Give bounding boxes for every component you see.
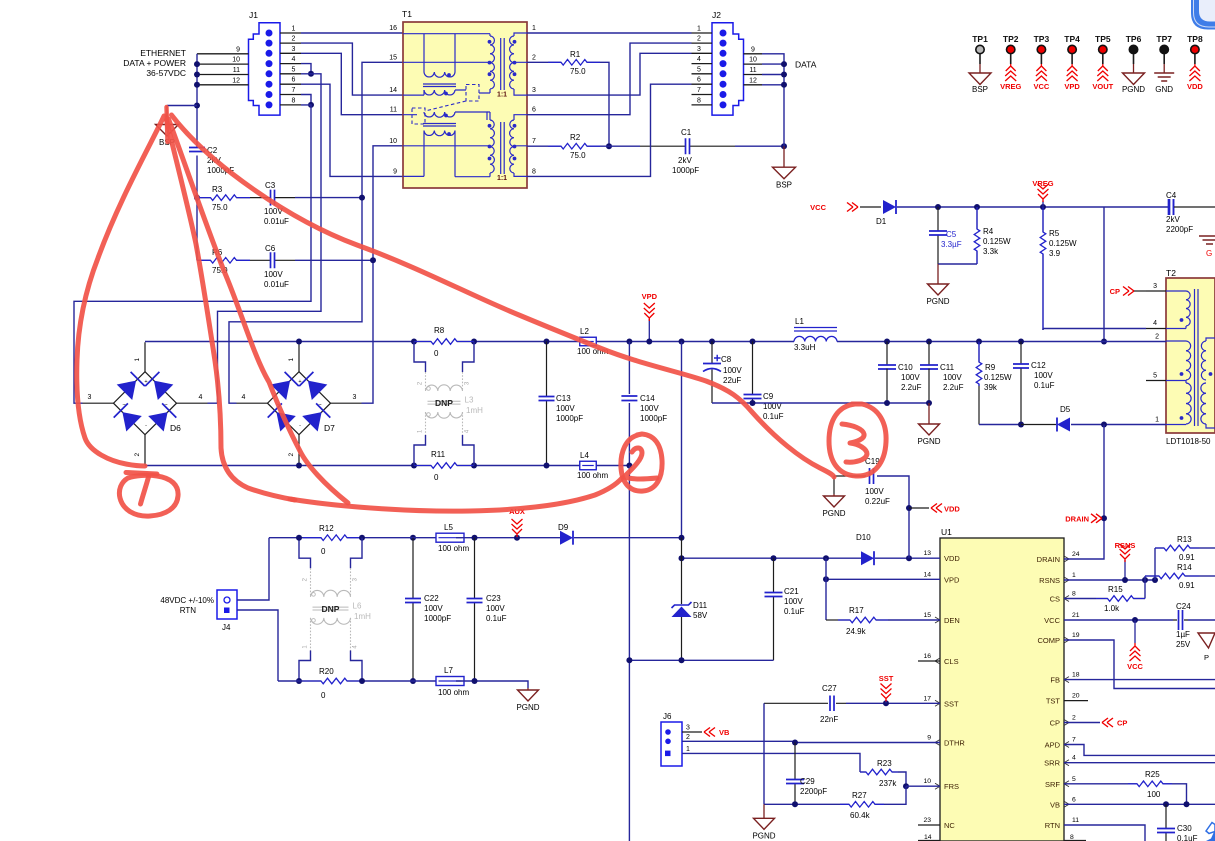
svg-text:R27: R27 [852, 791, 867, 800]
wire R12 row [269, 537, 303, 539]
svg-text:R14: R14 [1177, 563, 1192, 572]
svg-text:1: 1 [134, 358, 141, 362]
capacitor C21 [773, 558, 775, 660]
svg-text:18: 18 [1072, 672, 1080, 679]
junction J1 pins45 [308, 71, 314, 77]
wire J6.3 VB [682, 731, 702, 733]
wire J1.6 to T1.9 [301, 84, 403, 176]
svg-text:R8: R8 [434, 326, 445, 335]
wire C1 to BSP node [735, 145, 784, 147]
junction C22 top [410, 535, 416, 541]
ferrite bead L5 [436, 533, 464, 542]
svg-text:L6: L6 [353, 601, 362, 610]
svg-text:2: 2 [134, 453, 141, 457]
svg-text:R25: R25 [1145, 770, 1160, 779]
wire R3C3 to x362 [295, 197, 362, 199]
svg-text:TP7: TP7 [1156, 34, 1172, 44]
junction VDD flag [906, 505, 912, 511]
ground PGND right edge [1198, 633, 1215, 648]
svg-text:J6: J6 [663, 712, 672, 721]
svg-text:SRF: SRF [1045, 780, 1060, 789]
svg-text:10: 10 [749, 57, 757, 64]
svg-text:0.125W: 0.125W [983, 237, 1011, 246]
wire top rail [145, 341, 414, 343]
junction x826 vpd [823, 576, 829, 582]
svg-text:48VDC +/-10%: 48VDC +/-10% [160, 596, 214, 605]
svg-text:J1: J1 [249, 10, 258, 20]
svg-text:8: 8 [697, 97, 701, 104]
svg-text:8: 8 [532, 168, 536, 175]
svg-text:0.1uF: 0.1uF [763, 412, 784, 421]
svg-text:DRAIN: DRAIN [1065, 515, 1089, 524]
annotation circle 1 [119, 475, 178, 516]
junction C23 bottom [472, 678, 478, 684]
svg-text:~: ~ [318, 403, 321, 409]
wire BSP branch [167, 105, 197, 107]
svg-text:100V: 100V [486, 604, 505, 613]
svg-text:DTHR: DTHR [944, 739, 965, 748]
svg-text:L2: L2 [580, 327, 589, 336]
resistor R2 [527, 145, 548, 147]
wire T1.15 node to D7 left [229, 62, 403, 403]
svg-text:CS: CS [1050, 595, 1060, 604]
wire C4 right [1174, 206, 1215, 208]
svg-text:DATA: DATA [795, 60, 817, 70]
svg-text:1:1: 1:1 [497, 175, 507, 182]
svg-text:J4: J4 [222, 623, 231, 632]
svg-text:VDD: VDD [944, 505, 960, 514]
svg-text:R17: R17 [849, 606, 864, 615]
svg-text:R11: R11 [431, 450, 446, 459]
svg-text:19: 19 [1072, 632, 1080, 639]
svg-text:C21: C21 [784, 587, 799, 596]
svg-text:U1: U1 [941, 527, 952, 537]
svg-text:D1: D1 [876, 217, 887, 226]
wire J1.5 spare to D6 right [208, 74, 322, 403]
junction T1.10 R6 [370, 257, 376, 263]
wire T1.10 node to D7 right [362, 146, 404, 403]
svg-text:2: 2 [1155, 334, 1159, 341]
svg-text:C22: C22 [424, 594, 439, 603]
wire DRAIN pin [1064, 518, 1104, 559]
svg-text:R13: R13 [1177, 535, 1192, 544]
junction R25 VB [1184, 801, 1190, 807]
svg-text:12: 12 [232, 77, 240, 84]
svg-text:5: 5 [292, 66, 296, 73]
svg-text:C30: C30 [1177, 824, 1192, 833]
junction DATA 11 [781, 72, 787, 78]
junction x826 top [823, 555, 829, 561]
svg-text:2200pF: 2200pF [800, 787, 827, 796]
svg-text:C14: C14 [640, 394, 655, 403]
svg-text:1: 1 [292, 26, 296, 33]
svg-text:14: 14 [923, 571, 931, 578]
svg-text:R23: R23 [877, 759, 892, 768]
svg-text:L7: L7 [444, 666, 453, 675]
svg-text:9: 9 [393, 168, 397, 175]
svg-text:VPD: VPD [1064, 82, 1080, 91]
wire R20 row [278, 680, 303, 682]
connector J6 [661, 722, 682, 766]
resistor R1 [527, 61, 548, 63]
svg-text:100V: 100V [723, 366, 742, 375]
ground BSP right [783, 146, 785, 167]
svg-text:8: 8 [1072, 591, 1076, 598]
svg-text:6: 6 [697, 77, 701, 84]
wire x681 vertical upper [681, 342, 683, 538]
wire J1.8 spare to D6 left [74, 105, 311, 403]
svg-text:25V: 25V [1176, 640, 1191, 649]
svg-text:0: 0 [434, 473, 439, 482]
wire SRF pin [1064, 783, 1128, 785]
svg-text:D10: D10 [856, 533, 871, 542]
logo corner bottom right [1206, 823, 1215, 834]
junction C10 bottom [884, 400, 890, 406]
resistor R13 [1154, 548, 1156, 580]
capacitor C3 [250, 197, 295, 199]
svg-text:100V: 100V [424, 604, 443, 613]
wire bottom rail [145, 465, 414, 467]
wire D1 to C4 [897, 206, 1169, 208]
junction x681 rail [679, 339, 685, 345]
capacitor C27 [830, 696, 834, 712]
svg-text:PGND: PGND [917, 437, 940, 446]
svg-text:APD: APD [1045, 741, 1061, 750]
wire R6C6 to x373 [295, 259, 373, 261]
svg-text:T1: T1 [402, 9, 412, 19]
svg-text:4: 4 [292, 56, 296, 63]
svg-text:SRR: SRR [1044, 759, 1060, 768]
wire J1.1 to T1.16 [301, 32, 403, 34]
capacitor C23 [474, 538, 476, 681]
svg-text:0: 0 [434, 349, 439, 358]
svg-text:16: 16 [389, 25, 397, 32]
junction VDD riser [906, 555, 912, 561]
annotation tip at BSP [167, 107, 168, 142]
wire DRAIN riser [1103, 425, 1105, 519]
svg-text:3: 3 [532, 87, 536, 94]
svg-text:CP: CP [1110, 287, 1120, 296]
ground PGND under L7 [527, 688, 529, 690]
wire VCC pin [1064, 619, 1173, 621]
svg-text:8: 8 [1070, 834, 1074, 841]
wire R25 to VB rail [1172, 784, 1187, 805]
annotation stroke B2 (BSP down right) [169, 119, 349, 503]
svg-text:3: 3 [686, 725, 690, 732]
annotation bottom sweep to circle 2 [290, 478, 622, 511]
svg-text:R2: R2 [570, 133, 581, 142]
junction rail660 x681 [679, 657, 685, 663]
svg-text:-: - [145, 423, 147, 429]
svg-text:1.0k: 1.0k [1104, 604, 1120, 613]
T2 pin stubs [1146, 291, 1166, 381]
resistor R3 [197, 197, 250, 199]
svg-text:3.3µF: 3.3µF [941, 240, 962, 249]
svg-text:6: 6 [292, 77, 296, 84]
junction R12 choke [359, 535, 365, 541]
wire C27 left [764, 702, 810, 704]
svg-text:LDT1018-50: LDT1018-50 [1166, 437, 1211, 446]
svg-text:C8: C8 [721, 355, 732, 364]
U1 pin23 NC stub [918, 824, 940, 826]
svg-text:0.01uF: 0.01uF [264, 280, 289, 289]
svg-text:4: 4 [1153, 320, 1157, 327]
svg-text:VCC: VCC [810, 203, 826, 212]
svg-text:D11: D11 [693, 601, 708, 610]
svg-text:SST: SST [879, 674, 894, 683]
capacitor C30 [1165, 804, 1167, 841]
annotation digit 3 [842, 424, 867, 462]
junction x681 row13 [679, 555, 685, 561]
svg-text:21: 21 [1072, 612, 1080, 619]
svg-text:1000pF: 1000pF [640, 414, 667, 423]
svg-text:P: P [1204, 653, 1209, 662]
svg-text:D5: D5 [1060, 405, 1071, 414]
svg-text:2kV: 2kV [1166, 215, 1180, 224]
resistor R20 [303, 680, 365, 682]
svg-text:1: 1 [1155, 417, 1159, 424]
svg-text:C12: C12 [1031, 361, 1046, 370]
svg-text:0.125W: 0.125W [984, 373, 1012, 382]
svg-text:100 ohm: 100 ohm [438, 544, 469, 553]
junction C13 bottom [544, 463, 550, 469]
wire C19 row [834, 475, 866, 477]
junction C9 bottom [750, 400, 756, 406]
wire D9 to x681 [574, 537, 682, 539]
wire J1.3 to T1.11 [301, 53, 403, 114]
svg-text:R4: R4 [983, 227, 994, 236]
wire J4 pin2 [237, 610, 278, 681]
wire T1.3 to J2.3 [527, 53, 692, 95]
ground PGND under C5 [937, 264, 939, 284]
resistor R23 [860, 771, 898, 773]
svg-text:C5: C5 [946, 230, 957, 239]
svg-text:9: 9 [236, 46, 240, 53]
wire R5 to T2.4 [1042, 329, 1044, 331]
junction VPD [646, 339, 652, 345]
svg-text:16: 16 [923, 653, 931, 660]
wire J2 DATA bus [762, 54, 784, 146]
capacitor C9 [752, 342, 754, 404]
svg-text:T2: T2 [1166, 268, 1176, 278]
junction R4 top [974, 204, 980, 210]
svg-text:3.9: 3.9 [1049, 249, 1061, 258]
svg-text:VDD: VDD [944, 554, 960, 563]
svg-text:0.125W: 0.125W [1049, 239, 1077, 248]
svg-text:1000pF: 1000pF [424, 614, 451, 623]
svg-text:PGND: PGND [926, 297, 949, 306]
capacitor C14 [628, 342, 630, 395]
capacitor C8 polarized [711, 342, 713, 404]
flag VDD left [909, 507, 929, 509]
svg-text:C27: C27 [822, 684, 837, 693]
svg-text:11: 11 [1072, 817, 1079, 824]
svg-text:+: + [144, 379, 147, 385]
junction R20 choke [359, 678, 365, 684]
svg-text:75.0: 75.0 [212, 203, 228, 212]
svg-text:7: 7 [697, 87, 701, 94]
wire RTN route [1064, 825, 1145, 841]
svg-text:1: 1 [288, 358, 295, 362]
svg-text:3: 3 [697, 46, 701, 53]
svg-text:VDD: VDD [1187, 82, 1203, 91]
annotation circle 2 [621, 434, 662, 491]
svg-text:7: 7 [292, 87, 296, 94]
wire to L7 [404, 680, 445, 682]
annotation circle 1 dash [126, 473, 157, 475]
junction L6 bl [296, 678, 302, 684]
svg-text:PGND: PGND [752, 831, 775, 840]
svg-text:VCC: VCC [1127, 662, 1143, 671]
diode D10 [861, 551, 874, 565]
svg-text:G: G [1206, 249, 1212, 258]
wire T1.1 to J2.1 [527, 32, 692, 34]
wire C4 vert to rail [1103, 207, 1105, 342]
wire J6.1 route [682, 753, 860, 772]
svg-text:10: 10 [923, 778, 931, 785]
svg-text:0.1uF: 0.1uF [486, 614, 507, 623]
svg-text:1000pF: 1000pF [556, 414, 583, 423]
wire D5 to T2.1 [1071, 424, 1166, 426]
svg-text:11: 11 [390, 107, 397, 114]
svg-text:TP4: TP4 [1064, 34, 1080, 44]
svg-text:0.22uF: 0.22uF [865, 497, 890, 506]
svg-text:VCC: VCC [1033, 82, 1049, 91]
svg-text:CP: CP [1117, 719, 1127, 728]
svg-text:DNP: DNP [435, 398, 453, 408]
junction C29 bottom [792, 801, 798, 807]
wire pgnd rail 804 [764, 803, 840, 805]
svg-text:1µF: 1µF [1176, 630, 1190, 639]
wire L5 to D9 [456, 537, 561, 539]
flag VB left [704, 728, 710, 737]
junction C9 top [750, 339, 756, 345]
svg-text:C6: C6 [265, 244, 276, 253]
svg-text:4: 4 [1072, 755, 1076, 762]
bridge rectifier D7 [268, 372, 331, 435]
wire T1.6 to J2.2 [527, 43, 692, 115]
wire C5 R4 bottom [938, 263, 977, 265]
junction C29 top [792, 740, 798, 746]
svg-text:GND: GND [1155, 85, 1173, 94]
svg-text:20: 20 [1072, 693, 1080, 700]
svg-text:L5: L5 [444, 523, 453, 532]
wire J1.7 down [301, 95, 311, 105]
junction C11 bottom [926, 400, 932, 406]
svg-text:6: 6 [532, 107, 536, 114]
junction R15 vert [1142, 577, 1148, 583]
wire C12 to D5 [1021, 424, 1056, 426]
U1 bottom partial pin stub left [918, 840, 940, 841]
svg-text:BSP: BSP [776, 181, 792, 190]
svg-text:DATA + POWER: DATA + POWER [123, 58, 186, 68]
svg-text:17: 17 [923, 695, 931, 702]
junction C12 bottom [1018, 422, 1024, 428]
svg-text:VOUT: VOUT [1092, 82, 1113, 91]
junction rail660 x629 [626, 657, 632, 663]
svg-text:2: 2 [697, 36, 701, 43]
svg-text:R3: R3 [212, 185, 223, 194]
svg-text:C24: C24 [1176, 602, 1191, 611]
svg-text:J2: J2 [712, 10, 721, 20]
wire J4 pin1 [237, 538, 269, 600]
svg-text:R15: R15 [1108, 585, 1123, 594]
resistor R8 [414, 341, 474, 343]
svg-text:C29: C29 [800, 777, 815, 786]
resistor R9 [978, 342, 980, 387]
svg-text:22uF: 22uF [723, 376, 741, 385]
junction D7 bottom [296, 463, 302, 469]
junction VREG [1040, 204, 1046, 210]
svg-text:R12: R12 [319, 524, 334, 533]
resistor R4 [976, 207, 978, 264]
junction L3 tr [471, 339, 477, 345]
svg-text:0.1uF: 0.1uF [784, 607, 805, 616]
svg-text:6: 6 [1072, 796, 1076, 803]
svg-text:2: 2 [532, 54, 536, 61]
svg-text:PGND: PGND [1122, 85, 1145, 94]
svg-text:9: 9 [751, 46, 755, 53]
junction DATA 12 [781, 82, 787, 88]
svg-text:3.3uH: 3.3uH [794, 343, 816, 352]
wire VB rail [1064, 803, 1215, 805]
svg-text:15: 15 [389, 54, 397, 61]
svg-text:~: ~ [122, 403, 125, 409]
svg-text:10: 10 [389, 138, 397, 145]
svg-text:C9: C9 [763, 392, 774, 401]
junction L3 br [471, 463, 477, 469]
svg-text:VB: VB [719, 728, 730, 737]
svg-text:SST: SST [944, 699, 959, 708]
svg-text:CLS: CLS [944, 657, 959, 666]
wire J1.4 down [301, 64, 311, 74]
junction C8 top [709, 339, 715, 345]
svg-text:100V: 100V [640, 404, 659, 413]
svg-text:R5: R5 [1049, 229, 1060, 238]
wire D10 to U1 [875, 557, 940, 559]
junction L3 tl [411, 339, 417, 345]
choke L3 DNP [414, 342, 426, 373]
ground PGND under C19 [833, 494, 835, 496]
wire R27 to FRS [884, 786, 906, 804]
svg-text:11: 11 [233, 67, 240, 74]
wire R17 lead [826, 619, 838, 621]
svg-text:VPD: VPD [944, 575, 960, 584]
svg-text:237k: 237k [879, 779, 897, 788]
svg-text:1mH: 1mH [466, 406, 483, 415]
svg-text:0: 0 [321, 691, 326, 700]
svg-text:23: 23 [923, 817, 931, 824]
ferrite bead L2 [580, 337, 597, 346]
svg-text:7: 7 [532, 138, 536, 145]
svg-text:58V: 58V [693, 611, 708, 620]
svg-text:3: 3 [1153, 283, 1157, 290]
U1 pin20 TST stub [1064, 700, 1088, 702]
svg-text:RSNS: RSNS [1039, 576, 1060, 585]
svg-text:1: 1 [686, 746, 690, 753]
svg-text:39k: 39k [984, 383, 998, 392]
junction T1.15 R3 [359, 195, 365, 201]
U1 pin16 CLS stub [918, 660, 940, 662]
svg-text:15: 15 [923, 612, 931, 619]
svg-text:12: 12 [749, 77, 757, 84]
svg-text:PGND: PGND [822, 509, 845, 518]
wire to L5 [404, 537, 445, 539]
svg-text:D9: D9 [558, 523, 569, 532]
svg-text:TP8: TP8 [1187, 34, 1203, 44]
capacitor C29 [794, 743, 796, 805]
svg-text:4: 4 [242, 394, 246, 401]
